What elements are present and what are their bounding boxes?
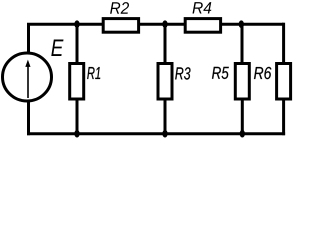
resistor R3 body (158, 64, 172, 100)
resistor R1 body (70, 64, 84, 100)
wire vertical from node N1 down to R1 (76, 24, 79, 63)
label R5 (212, 67, 229, 79)
junction node N3 bottom (240, 130, 245, 138)
wire vertical from node N2 down to R3 (164, 24, 167, 63)
resistor R2 body (103, 19, 138, 33)
wire top segment from R2 right to R4 left (through node N2) (139, 23, 186, 26)
junction node N1 top (74, 20, 79, 28)
junction node N2 top (162, 20, 167, 28)
junction node N1 bottom (74, 130, 79, 138)
label R1 (87, 67, 100, 79)
wire right vertical from top-right corner down to R6 (282, 23, 285, 64)
label R6 (254, 67, 271, 79)
label R4 (193, 2, 212, 13)
wire vertical from node N3 down to R5 (241, 24, 244, 63)
wire vertical from R5 bottom to bottom rail (241, 99, 244, 134)
junction node N2 bottom (162, 130, 167, 138)
wire top-left corner and left vertical lead to source E (27, 24, 103, 52)
label R3 (175, 67, 190, 79)
wire vertical from source E bottom to bottom-left corner (27, 101, 30, 135)
source E circle (3, 53, 52, 101)
resistor R5 body (235, 64, 249, 100)
label R2 (110, 2, 129, 14)
resistor R6 body (277, 64, 291, 100)
label E (51, 39, 63, 56)
wire vertical from R1 bottom to bottom rail (76, 99, 79, 134)
resistor R4 body (185, 19, 220, 33)
wire bottom rail (27, 132, 285, 135)
junction node N3 top (239, 20, 244, 28)
wire vertical from R6 bottom to bottom-right corner (282, 99, 285, 135)
wire vertical from R3 bottom to bottom rail (164, 99, 167, 134)
wire top segment from R4 right to top-right corner (through node N3) (221, 23, 284, 26)
source E arrow (25, 60, 30, 98)
